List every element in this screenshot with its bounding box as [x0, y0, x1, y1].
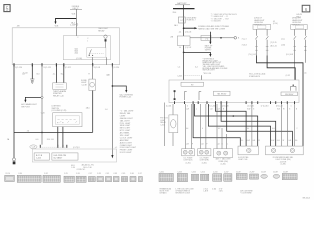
arrow *1 down: [205, 32, 211, 45]
related system list: [120, 110, 137, 154]
page marker 6: [302, 5, 310, 12]
annotation block *1 *2: [211, 13, 238, 23]
dedicated fuse F-1: [104, 35, 107, 42]
svg-text:(C-14): (C-14): [273, 23, 278, 25]
thick branch arrow to headlight list: [184, 52, 212, 57]
wire bulb to bus: [92, 91, 94, 133]
label tail RH: [273, 156, 293, 166]
switch 1 wires: [255, 29, 268, 55]
relay contact inner box: [87, 48, 106, 58]
lighting switch label: [52, 106, 67, 113]
svg-text:2C-10: 2C-10: [5, 173, 10, 175]
svg-text:2: 2: [77, 37, 78, 39]
svg-text:SHOWN BY CODE: SHOWN BY CODE: [175, 193, 190, 195]
junction dot: [112, 85, 114, 87]
bus stair 5: [227, 104, 293, 146]
connector C-28 icon: [97, 177, 103, 182]
connector strip r7: [236, 174, 247, 180]
marker corner note: [296, 14, 302, 18]
junction dot bus crossing: [41, 132, 43, 134]
svg-text:F-7: F-7: [180, 20, 183, 22]
svg-text:C-37: C-37: [138, 173, 142, 175]
svg-text:5A-3: 5A-3: [174, 24, 178, 27]
svg-text:L-B: L-B: [210, 108, 212, 110]
wire codes beside main: [178, 67, 198, 69]
bus stair 1: [216, 104, 247, 146]
resistor label: [160, 118, 168, 127]
junction connector circle: [41, 96, 43, 98]
wires to box A thin: [251, 104, 253, 146]
connector strip r11: [282, 174, 297, 180]
main run wire right with junction: [111, 65, 113, 156]
svg-text:LIGHT (LH): LIGHT (LH): [184, 160, 193, 162]
svg-text:2B-4: 2B-4: [173, 12, 177, 14]
svg-text:2A-4: 2A-4: [75, 52, 79, 55]
svg-text:C-32: C-32: [44, 173, 48, 175]
tail light bulb branch: [92, 65, 94, 79]
svg-text:}2 (C-31: }2 (C-31: [248, 106, 255, 108]
svg-text:G-B: G-B: [252, 140, 255, 142]
svg-text:INT: INT: [191, 84, 194, 86]
svg-text:0-2: 0-2: [218, 128, 220, 130]
oval connector C-28: [30, 145, 37, 149]
svg-text:RH POST: RH POST: [21, 107, 30, 109]
svg-text:(C-32: (C-32: [286, 75, 290, 77]
svg-text:4: 4: [187, 106, 188, 108]
svg-text:}4 (C-30: }4 (C-30: [222, 106, 229, 108]
svg-text:C-30: C-30: [71, 167, 75, 169]
svg-text:(C-88): (C-88): [281, 164, 286, 166]
svg-text:2C-84*: 2C-84*: [261, 171, 266, 173]
battery label: [175, 2, 190, 5]
svg-text:(2-L) 4-W: (2-L) 4-W: [286, 54, 294, 56]
svg-text:2A-5: 2A-5: [86, 106, 90, 109]
svg-text:4-L: 4-L: [247, 128, 249, 130]
resistor component on wire: [169, 104, 178, 146]
labels *1 *2 group1: [242, 38, 247, 46]
svg-text:}4 (C-33: }4 (C-33: [185, 31, 191, 33]
svg-text:B: B: [296, 108, 297, 110]
svg-text:2C-81*: 2C-81*: [236, 171, 241, 173]
switch output wires: [58, 127, 63, 146]
svg-text:P: P: [206, 143, 207, 145]
svg-text:1: 1: [291, 106, 292, 108]
wires to box E: [217, 104, 227, 149]
svg-text:DETAILS: DETAILS: [160, 192, 168, 195]
svg-text:G-B: G-B: [277, 108, 280, 110]
connector C-35 icon: [122, 177, 128, 182]
connector C-10 icon: [5, 175, 15, 181]
junction dot battery branch: [183, 27, 185, 29]
svg-text:L: L: [196, 108, 197, 110]
ECU internal bracket: [291, 85, 297, 91]
svg-text:DOOR LIGHT: DOOR LIGHT: [120, 152, 133, 154]
svg-text:C-20: C-20: [41, 112, 45, 114]
svg-text:1-4: 1-4: [105, 109, 108, 111]
connector C-305 dashed: [177, 73, 211, 80]
branch arrow fused feed: [184, 25, 230, 30]
svg-text:2: 2: [297, 128, 298, 130]
labels group2: [281, 38, 285, 46]
strip labels right half: [160, 171, 289, 173]
bus stair 2 with junction dot: [195, 104, 258, 146]
svg-text:(2-L): (2-L): [281, 38, 285, 40]
svg-text:C-26: C-26: [76, 173, 80, 175]
battery feed wire: [183, 5, 185, 36]
svg-text:C-28: C-28: [32, 147, 36, 149]
svg-text:G-W: G-W: [247, 108, 251, 110]
svg-text:RELAY: RELAY: [98, 29, 105, 32]
main wire to junction: [183, 52, 185, 54]
svg-text:}7 (C-313: }7 (C-313: [261, 106, 269, 108]
headlight leveling switch label LHD: [254, 18, 265, 27]
svg-text:COMB. (RH): COMB. (RH): [218, 161, 228, 163]
svg-text:C-27: C-27: [89, 173, 93, 175]
svg-text:C-28: C-28: [97, 173, 101, 175]
svg-text:L: L: [227, 143, 228, 145]
bus stair 3: [221, 104, 276, 146]
tail light relay label: [98, 27, 109, 32]
switch 2 wires: [293, 29, 306, 80]
svg-text:L-4: L-4: [178, 67, 181, 69]
wires to box C: [185, 104, 191, 149]
svg-text:}B (C-16: }B (C-16: [270, 46, 276, 48]
svg-text:(2-B): (2-B): [281, 45, 285, 47]
svg-text:B-2 2B34T: B-2 2B34T: [54, 157, 63, 159]
svg-text:LIGHT C-86: LIGHT C-86: [238, 159, 247, 161]
connector C-32 strip: [43, 175, 60, 182]
fuse element inside ECU: [174, 90, 176, 100]
main wire into ECU: [183, 45, 185, 80]
svg-text:}2 (C-15: }2 (C-15: [270, 42, 276, 44]
svg-text:}2 (C-32: }2 (C-32: [185, 47, 191, 49]
J/B box right: [177, 36, 190, 45]
connector oval r10: [273, 174, 280, 178]
connector C-36 icon: [130, 177, 136, 182]
wire code labels mid row2: [186, 128, 298, 130]
connector C-105 on feed wire: [70, 21, 78, 26]
svg-text:4 (C-58: 4 (C-58: [94, 67, 100, 69]
bus L-shape inner: [267, 56, 295, 81]
arrow into notes box: [111, 155, 113, 158]
wire ground run left: [13, 65, 15, 158]
labels at J/B top: [179, 31, 192, 33]
ground G1: [13, 158, 16, 164]
headlight system note list: [203, 57, 228, 71]
svg-text:C-33: C-33: [113, 173, 117, 175]
svg-text:4 (B): 4 (B): [212, 188, 216, 190]
svg-text:C-30: C-30: [18, 173, 22, 175]
svg-text:C-31: C-31: [106, 173, 110, 175]
connector labels under ECU: [166, 106, 292, 108]
centered connector caption: [82, 165, 94, 169]
svg-text:G-L: G-L: [241, 140, 244, 142]
wire stub to ground symbol: [31, 65, 33, 79]
wire code labels mid cluster: [186, 143, 228, 145]
svg-text:B-3: B-3: [37, 74, 40, 76]
svg-text:2C-86*: 2C-86*: [273, 171, 278, 173]
interface pin ticks: [40, 145, 68, 148]
column switch box: [53, 113, 82, 127]
svg-text:L-W: L-W: [186, 108, 189, 110]
notes outer box: [32, 149, 116, 162]
note box 1: [34, 153, 49, 160]
junction block J/B box: [12, 28, 119, 65]
relay pin labels: [87, 38, 89, 43]
svg-text:RELAY C-40: RELAY C-40: [53, 94, 64, 97]
ECU pin hook 2: [199, 92, 201, 101]
relay internals: contact and coil: [89, 41, 107, 64]
ECU input interface box: [181, 82, 204, 86]
svg-text:TAIL RELAY: TAIL RELAY: [217, 92, 227, 95]
svg-text:(7-L) (L-R): (7-L) (L-R): [249, 54, 257, 56]
svg-text:2C-83*: 2C-83*: [250, 171, 255, 173]
svg-text:C-305: C-305: [177, 75, 182, 77]
ETACS ECU box: [169, 80, 299, 103]
svg-text:(*-B) 4: (*-B) 4: [242, 45, 247, 47]
ECU internal labeled box 2: [281, 92, 298, 96]
svg-text:B: B: [223, 108, 224, 110]
svg-text:B-L: B-L: [295, 140, 298, 142]
connector icon r4: [201, 174, 209, 180]
svg-text:4: 4: [202, 128, 203, 130]
svg-text:1 (C-120: 1 (C-120: [15, 67, 22, 69]
svg-text:2 (R): 2 (R): [219, 190, 223, 192]
wire code labels right cluster: [241, 140, 298, 142]
svg-text:2C-88*: 2C-88*: [283, 171, 288, 173]
fusible link label (top feed): [70, 6, 82, 10]
svg-text:0-4: 0-4: [186, 128, 188, 130]
svg-text:4-L: 4-L: [53, 74, 56, 76]
svg-text:P: P: [192, 143, 193, 145]
svg-text:POWER C-45: POWER C-45: [119, 97, 131, 99]
svg-text:B: B: [222, 143, 223, 145]
svg-text:C-310: C-310: [201, 171, 205, 173]
svg-text:C-317: C-317: [224, 171, 228, 173]
svg-text:*4 : BUZZER: *4 : BUZZER: [211, 21, 222, 23]
svg-text:BATTERY: BATTERY: [177, 2, 187, 5]
svg-text:C-303: C-303: [178, 171, 182, 173]
label position LH: [184, 156, 194, 164]
connector label under J/B: [179, 47, 192, 49]
svg-text:1-4: 1-4: [107, 74, 110, 76]
connector strip r6: [224, 174, 232, 181]
ground symbol chassis: [30, 79, 34, 84]
svg-text:C-25: C-25: [64, 173, 68, 175]
connector strip r8: [250, 174, 259, 179]
wire W-B vertical feed: [75, 9, 77, 28]
note box 2: [52, 153, 78, 160]
bus bar: [173, 8, 195, 10]
svg-text:8W-100-6: 8W-100-6: [303, 198, 310, 200]
bus L-shape outer: [257, 56, 304, 147]
label tail LH: [238, 156, 249, 161]
svg-text:C-305: C-305: [192, 171, 196, 173]
svg-text:C-35: C-35: [122, 173, 126, 175]
svg-text:8 (C-121: 8 (C-121: [44, 67, 51, 69]
svg-text:4-4: 4-4: [179, 31, 182, 33]
footnote text right half: [160, 187, 223, 190]
tail light RH box B: [266, 146, 304, 155]
rheostat component: [89, 79, 95, 90]
svg-text:B-L: B-L: [61, 74, 64, 76]
label M.U. left: [71, 165, 75, 169]
connector labels group1: [270, 42, 276, 47]
label position RH: [200, 156, 210, 164]
connector strip r2: [177, 173, 187, 181]
bus wire bottom left: [14, 131, 93, 133]
svg-text:1: 1: [87, 40, 88, 42]
connector C-33 icon: [113, 177, 119, 182]
branch arrow to A-19: [21, 97, 41, 108]
ECU internal labeled box 1: [214, 91, 231, 95]
connector C-27 icon: [89, 177, 96, 182]
svg-text:G-B: G-B: [277, 140, 280, 142]
fusible link note: [174, 16, 197, 26]
pin stubs on J/B bottom edge: [13, 63, 113, 66]
theft alarm label: [53, 90, 67, 98]
svg-text:G-B: G-B: [288, 140, 291, 142]
wire code labels upper row: [186, 108, 297, 110]
headlight leveling switch label RHD: [292, 18, 303, 27]
svg-text:26 4 1-B: 26 4 1-B: [47, 139, 55, 141]
line to terminal circle: [190, 35, 240, 40]
svg-text:L-B: L-B: [217, 143, 219, 145]
svg-text:RATED LOAD: SEE THE COVER: RATED LOAD: SEE THE COVER: [198, 27, 226, 30]
ETACS ECU label: [249, 74, 265, 78]
connector oval r9: [261, 174, 268, 178]
relay box U1: [63, 36, 110, 60]
leveling switch box 2: [291, 25, 308, 30]
branch arrow to back door: [112, 86, 133, 99]
svg-text:SUPPLY: SUPPLY: [205, 49, 212, 51]
wires to box D: [201, 104, 206, 149]
svg-text:RHD-2: RHD-2: [296, 16, 301, 18]
relay interior note text: [75, 48, 83, 60]
svg-text:*: DOOR WIRE: *: DOOR WIRE: [240, 193, 252, 195]
svg-text:L-B W: L-B W: [203, 190, 208, 192]
bus stair 4: [208, 104, 270, 146]
svg-text:0-0: 0-0: [36, 139, 39, 141]
page marker 5: [4, 5, 10, 13]
leveling switch box 1: [253, 25, 271, 30]
svg-text:C-415: C-415: [36, 157, 41, 159]
front position light LH box: [182, 149, 195, 156]
label C-xx group1: [273, 21, 278, 25]
tail light LH box A: [238, 146, 258, 155]
wire with junction to arrow branch: [41, 65, 43, 145]
svg-text:6: 6: [305, 7, 308, 12]
svg-text:FUSE NO.7: FUSE NO.7: [187, 20, 196, 22]
svg-text:① 1-B: ① 1-B: [23, 71, 29, 74]
connector C-30 strip: [17, 175, 41, 182]
front position light RH box: [198, 149, 211, 156]
wire to dome out: [164, 103, 166, 147]
svg-text:1-4: 1-4: [179, 47, 182, 49]
wire pin 2 into relay: [76, 28, 78, 39]
connector C-37 icon: [139, 177, 143, 182]
svg-text:ETACS-ECU: ETACS-ECU: [249, 75, 260, 78]
svg-text:(C-301: (C-301: [166, 106, 172, 108]
connector strip r1: [159, 173, 173, 181]
svg-text:3 (C-124: 3 (C-124: [112, 67, 119, 69]
bus stair 6: [193, 104, 240, 146]
ECU bottom pin stubs: [174, 101, 295, 104]
connector C-26 icon: [76, 176, 86, 182]
wire codes row (7-L)(L-R): [249, 54, 294, 56]
svg-text:(C-84): (C-84): [221, 164, 226, 166]
svg-text:}7 (C-303: }7 (C-303: [208, 106, 216, 108]
wire code labels row: [22, 74, 110, 77]
connector C-25 icon: [64, 176, 74, 182]
svg-text:(*1): (*1): [205, 39, 208, 41]
svg-text:5: 5: [6, 7, 9, 13]
rheostat label: [81, 80, 88, 87]
svg-text:L-W: L-W: [186, 143, 189, 145]
svg-text:C-301: C-301: [160, 171, 164, 173]
svg-text:C-36: C-36: [130, 173, 134, 175]
svg-text:LIGHT (RH): LIGHT (RH): [200, 160, 209, 162]
theft alarm unit box: [53, 65, 67, 90]
connector strip r5: [213, 174, 222, 181]
svg-text:SWITCH LIGHT: SWITCH LIGHT: [203, 70, 215, 72]
rear combination box: [214, 149, 233, 158]
svg-text:LHD-7B: LHD-7B: [296, 14, 302, 16]
wire thick branch to ground arrow: [54, 19, 76, 28]
svg-text:G-W: G-W: [271, 140, 275, 142]
svg-text:(C-82): (C-82): [202, 163, 207, 165]
connector dashed interface: [40, 146, 67, 148]
connector labels under J/B: [15, 67, 120, 69]
svg-text:(C-134): (C-134): [76, 58, 82, 60]
fusible link box F-7: [178, 17, 185, 23]
connector icon r3: [192, 174, 199, 180]
svg-text:C-105: C-105: [70, 25, 75, 27]
wires to box B: [282, 104, 295, 146]
svg-text:L-B: L-B: [201, 143, 203, 145]
connector C-31 icon: [106, 177, 112, 182]
svg-text:CONN. NO.: CONN. NO.: [77, 169, 86, 171]
svg-text:(C-81): (C-81): [186, 163, 191, 165]
svg-text:*309 C-36: *309 C-36: [203, 73, 211, 75]
svg-text:0-4: 0-4: [195, 67, 198, 69]
label rear combination: [215, 158, 230, 166]
svg-text:C-310: C-310: [160, 125, 165, 127]
svg-text:2 (C-122: 2 (C-122: [63, 67, 70, 69]
svg-text:(*-L) 4: (*-L) 4: [242, 38, 247, 40]
svg-text:(COLUMN (C-78): (COLUMN (C-78): [52, 110, 67, 112]
note under *1 arrow: [205, 45, 213, 52]
connector strip labels left half: [5, 173, 141, 175]
svg-text:C-313: C-313: [213, 171, 217, 173]
labels 2A-5 and 1-4 mid: [86, 106, 108, 110]
column switch inner box: [55, 116, 79, 124]
svg-text:(C-73) 8: (C-73) 8: [73, 147, 80, 149]
svg-text:④1: ④1: [115, 146, 118, 149]
svg-text:G-W: G-W: [247, 140, 251, 142]
ECU pin hook 1: [185, 92, 187, 101]
svg-text:26: 26: [27, 130, 29, 132]
svg-text:C-138: C-138: [81, 84, 86, 86]
